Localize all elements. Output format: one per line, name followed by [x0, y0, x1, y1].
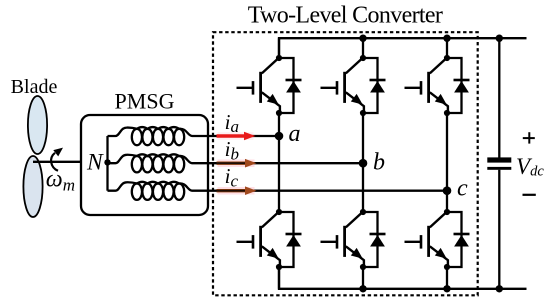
diode DS4	[279, 212, 302, 267]
wire phase b	[208, 162, 363, 164]
wire leg b upper collector	[362, 38, 364, 58]
IGBT S6	[321, 212, 364, 265]
wire phase a	[208, 135, 279, 137]
junction node S3 emitter	[360, 110, 366, 116]
label plus	[523, 137, 535, 139]
junction node S2 collector	[444, 209, 450, 215]
neutral bus wire	[106, 136, 108, 191]
svg-text:b: b	[373, 150, 385, 176]
shaft wire	[33, 161, 81, 163]
junction bottom rail leg b	[359, 285, 366, 292]
svg-text:Blade: Blade	[11, 76, 58, 98]
wire leg a upper collector	[278, 38, 280, 58]
turbine blade bottom ellipse	[23, 156, 42, 217]
svg-text:c: c	[457, 176, 468, 202]
label minus	[523, 194, 536, 196]
junction bottom rail capacitor	[496, 285, 503, 292]
capacitor C negative plate	[487, 167, 511, 170]
wire leg b phase bus	[362, 113, 364, 212]
capacitor C positive plate	[487, 157, 511, 162]
diode DS6	[363, 212, 386, 267]
diode DS2	[447, 212, 470, 267]
wire capacitor bottom	[498, 170, 500, 289]
wire leg a phase bus	[278, 113, 280, 212]
junction node S3 collector	[360, 55, 366, 61]
IGBT S4	[237, 212, 280, 265]
junction node S2 emitter	[444, 264, 450, 270]
converter dashed box	[213, 32, 478, 295]
node c	[443, 186, 452, 195]
svg-text:a: a	[289, 121, 301, 147]
junction bottom rail leg c	[443, 285, 450, 292]
node a	[275, 132, 284, 141]
current arrow i_a	[218, 132, 254, 140]
IGBT S5	[405, 58, 448, 111]
IGBT S3	[321, 58, 364, 111]
junction node S5 emitter	[444, 110, 450, 116]
stator winding phase b	[108, 154, 209, 172]
junction node S4 collector	[276, 209, 282, 215]
stator winding phase c	[108, 182, 209, 200]
wire capacitor top	[498, 38, 500, 157]
IGBT S2	[405, 212, 448, 265]
diode DS1	[279, 58, 302, 113]
svg-text:N: N	[86, 150, 104, 176]
diode DS5	[447, 58, 470, 113]
node N	[104, 159, 110, 165]
wire negative dc rail	[279, 267, 527, 289]
wire leg c upper collector	[446, 38, 448, 58]
node b	[359, 159, 368, 168]
PMSG box	[81, 115, 208, 215]
turbine blade top ellipse	[28, 96, 47, 154]
junction node S4 emitter	[276, 264, 282, 270]
wire leg c lower emitter	[446, 267, 448, 289]
stator winding phase a	[108, 127, 209, 145]
junction top rail leg c	[443, 35, 450, 42]
svg-text:PMSG: PMSG	[115, 89, 175, 114]
junction node S6 emitter	[360, 264, 366, 270]
junction top rail leg b	[359, 35, 366, 42]
junction node S5 collector	[444, 55, 450, 61]
wire leg a lower emitter	[278, 267, 280, 289]
rotation arrow	[51, 148, 63, 171]
diode DS3	[363, 58, 386, 113]
junction node S1 collector	[276, 55, 282, 61]
current arrow i_c	[218, 187, 255, 195]
junction top rail capacitor	[496, 35, 503, 42]
wire leg b lower emitter	[362, 267, 364, 289]
wire leg c phase bus	[446, 113, 448, 212]
current arrow i_b	[218, 159, 255, 167]
junction node S6 collector	[360, 209, 366, 215]
junction node S1 emitter	[276, 110, 282, 116]
wire positive dc rail	[279, 38, 527, 58]
IGBT S1	[237, 58, 280, 111]
wire phase c	[208, 190, 447, 192]
svg-text:Two-Level Converter: Two-Level Converter	[248, 3, 443, 29]
